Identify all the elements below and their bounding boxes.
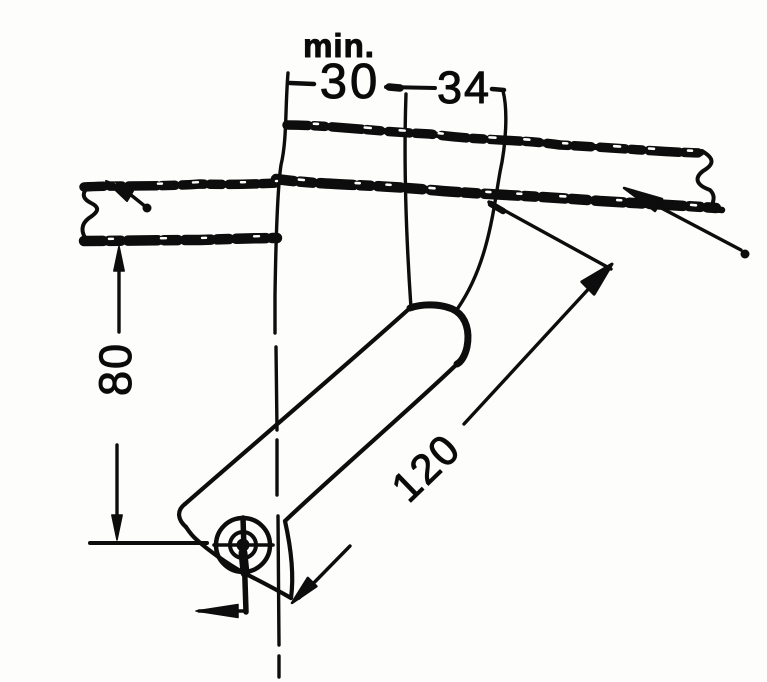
80 dim line upper segment (117, 252, 120, 332)
pivot inner circle (230, 532, 256, 558)
pivot outer circle (216, 518, 270, 572)
pivot lower smudge (243, 553, 245, 573)
extension line left vertical from 30 (275, 73, 288, 333)
upper rail bottom edge (276, 177, 722, 210)
120 dim line upper segment (464, 270, 606, 424)
80 arrow up (114, 246, 124, 271)
dimension line 30-34 left tick (290, 83, 314, 84)
120 dim line lower segment (299, 546, 350, 598)
upper rail top edge (287, 123, 701, 153)
svg-text:80: 80 (90, 342, 141, 396)
pivot leader horizontal with arrow (196, 605, 246, 618)
tick blob left of 34 segment (389, 87, 400, 88)
pivot vertical crosshair (243, 518, 246, 612)
lever base bottom edge (186, 527, 291, 598)
dimension 80 (90, 246, 207, 543)
lever base right side (285, 521, 292, 598)
80 dim line lower segment (115, 445, 118, 534)
extension line right (corner after 34 down to lever cap) (458, 91, 506, 308)
120 lower arrow (292, 578, 316, 603)
leader arrow inside left rail (106, 181, 152, 213)
extension line middle (between 30 and 34 down to lever cap) (405, 94, 411, 308)
svg-text:34: 34 (437, 62, 491, 113)
80 extension line at pivot height (90, 541, 207, 545)
dimension 120 (292, 202, 612, 603)
svg-text:120: 120 (382, 424, 469, 511)
dimension line right of 34 (492, 89, 504, 90)
pivot center dot (237, 539, 250, 552)
leader arrow on upper rail bottom edge (624, 188, 750, 259)
left rail top edge (84, 181, 277, 187)
80 arrow down (112, 515, 122, 540)
lever handle outline (185, 308, 410, 504)
dimension line between 30 and 34 (386, 87, 435, 88)
lever base left cap (179, 504, 186, 527)
upper rail right break line (698, 151, 714, 206)
lever lower edge (285, 364, 457, 521)
pivot horizontal crosshair (214, 543, 273, 547)
centerline dash segments (276, 347, 277, 430)
svg-text:30: 30 (320, 55, 381, 109)
extension line from rail to 120 arrow (489, 202, 611, 269)
left rail bottom edge (84, 236, 277, 241)
left rail break line (82, 185, 97, 242)
blob at extension start (491, 204, 503, 211)
lever top cap (410, 305, 468, 364)
120 upper arrow (582, 264, 612, 294)
